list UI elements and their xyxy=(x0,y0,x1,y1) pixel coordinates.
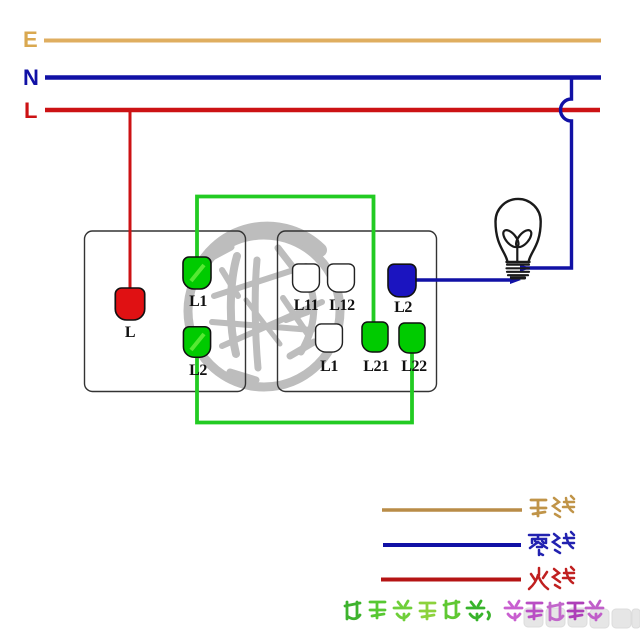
svg-text:L21: L21 xyxy=(363,358,389,375)
legend label live wire xyxy=(529,567,574,589)
svg-text:L2: L2 xyxy=(394,299,412,316)
wire blue from terminal L2 to bulb xyxy=(416,278,512,281)
terminal L2 (green) xyxy=(183,327,210,357)
legend label ground wire xyxy=(531,496,574,517)
legend earth line xyxy=(382,508,522,512)
left switch box xyxy=(85,231,246,392)
earth bus E xyxy=(44,39,601,43)
terminal L (red) xyxy=(115,288,144,320)
wire green L1 to L21 xyxy=(197,197,374,331)
svg-text:L2: L2 xyxy=(189,362,207,379)
terminal L1 (green) xyxy=(183,257,211,289)
legend live line xyxy=(381,578,521,582)
svg-text:L: L xyxy=(24,98,37,123)
terminal L11 (white) xyxy=(293,264,320,292)
terminal L22 (green) xyxy=(399,323,425,353)
filament stem xyxy=(516,246,518,262)
terminal L21 (green) xyxy=(362,322,388,352)
svg-text:L11: L11 xyxy=(294,297,319,314)
svg-text:L22: L22 xyxy=(401,358,427,375)
lamp bulb xyxy=(496,199,541,278)
svg-text:L12: L12 xyxy=(329,297,355,314)
svg-text:L: L xyxy=(125,324,135,341)
watermark seal xyxy=(188,229,340,387)
terminal L1 (white) xyxy=(316,324,343,352)
solder blob left xyxy=(510,276,521,284)
terminal L2 (blue) xyxy=(388,264,416,297)
live bus L xyxy=(45,108,600,112)
caption text purple part xyxy=(505,601,522,620)
wire blue N drop with hop over L xyxy=(522,79,572,268)
legend neutral line xyxy=(383,543,521,547)
screw base xyxy=(507,265,530,276)
svg-text:L1: L1 xyxy=(320,358,338,375)
watermark gray glyphs bottom right xyxy=(524,608,640,628)
neutral bus N xyxy=(45,75,601,80)
svg-text:L1: L1 xyxy=(189,293,207,310)
legend label neutral wire xyxy=(529,532,574,555)
wire green L2 to L22 xyxy=(197,345,412,423)
wire red drop from L bus xyxy=(129,111,132,290)
right switch box xyxy=(278,231,437,392)
terminal L12 (white) xyxy=(328,264,355,292)
svg-text:E: E xyxy=(23,27,38,52)
svg-text:N: N xyxy=(23,65,39,90)
filament right loop xyxy=(513,228,534,250)
solder blob right xyxy=(520,264,530,272)
filament left loop xyxy=(501,228,522,250)
caption comma xyxy=(488,612,490,619)
caption text green part xyxy=(345,602,360,619)
